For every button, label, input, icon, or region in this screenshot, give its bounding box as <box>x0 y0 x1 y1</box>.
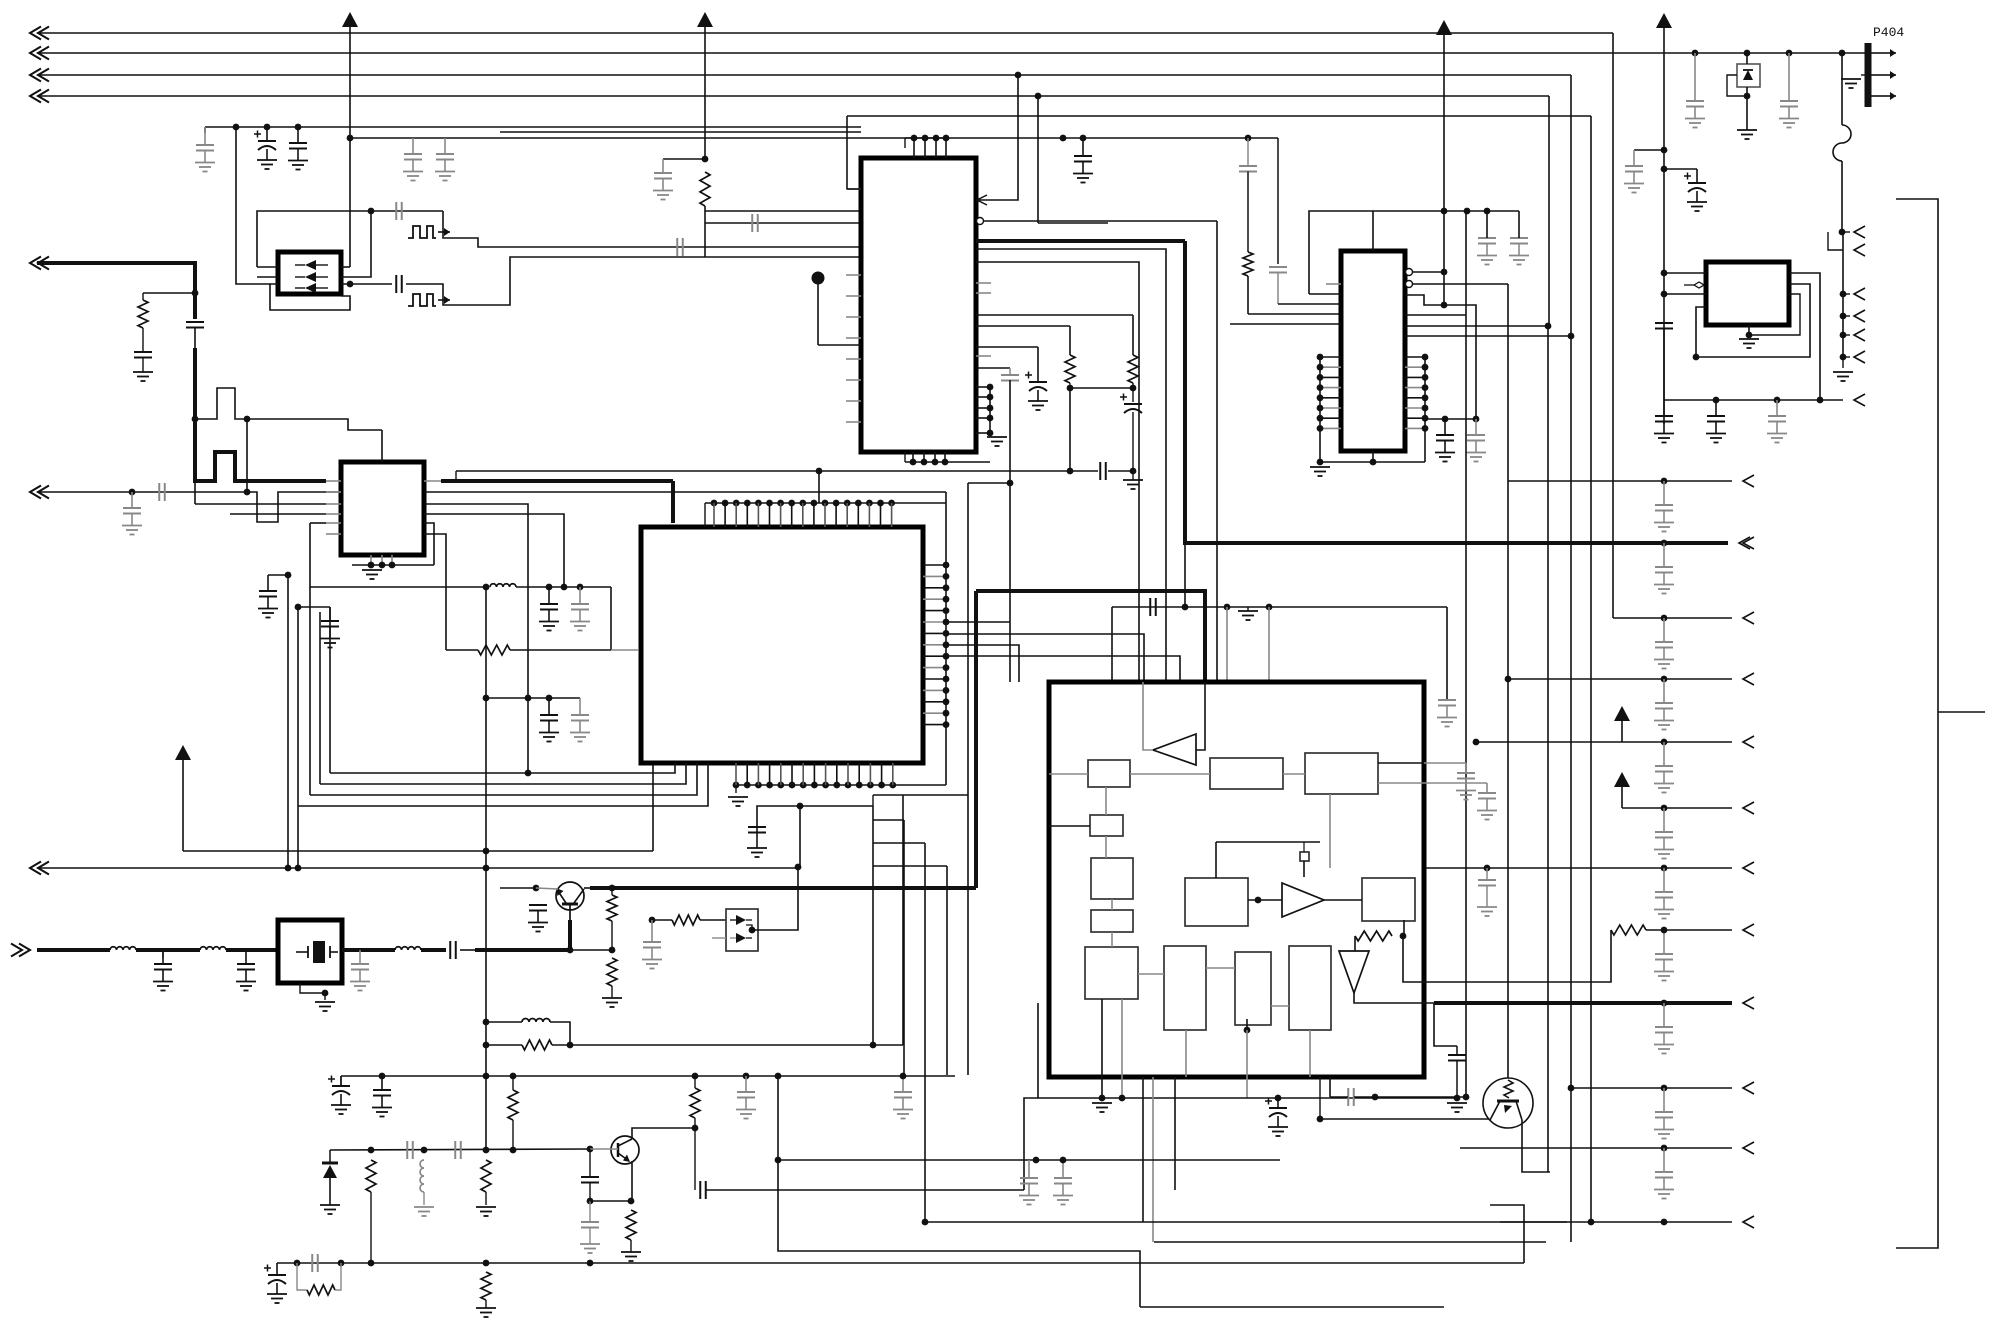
svg-text:P404: P404 <box>1873 25 1904 40</box>
